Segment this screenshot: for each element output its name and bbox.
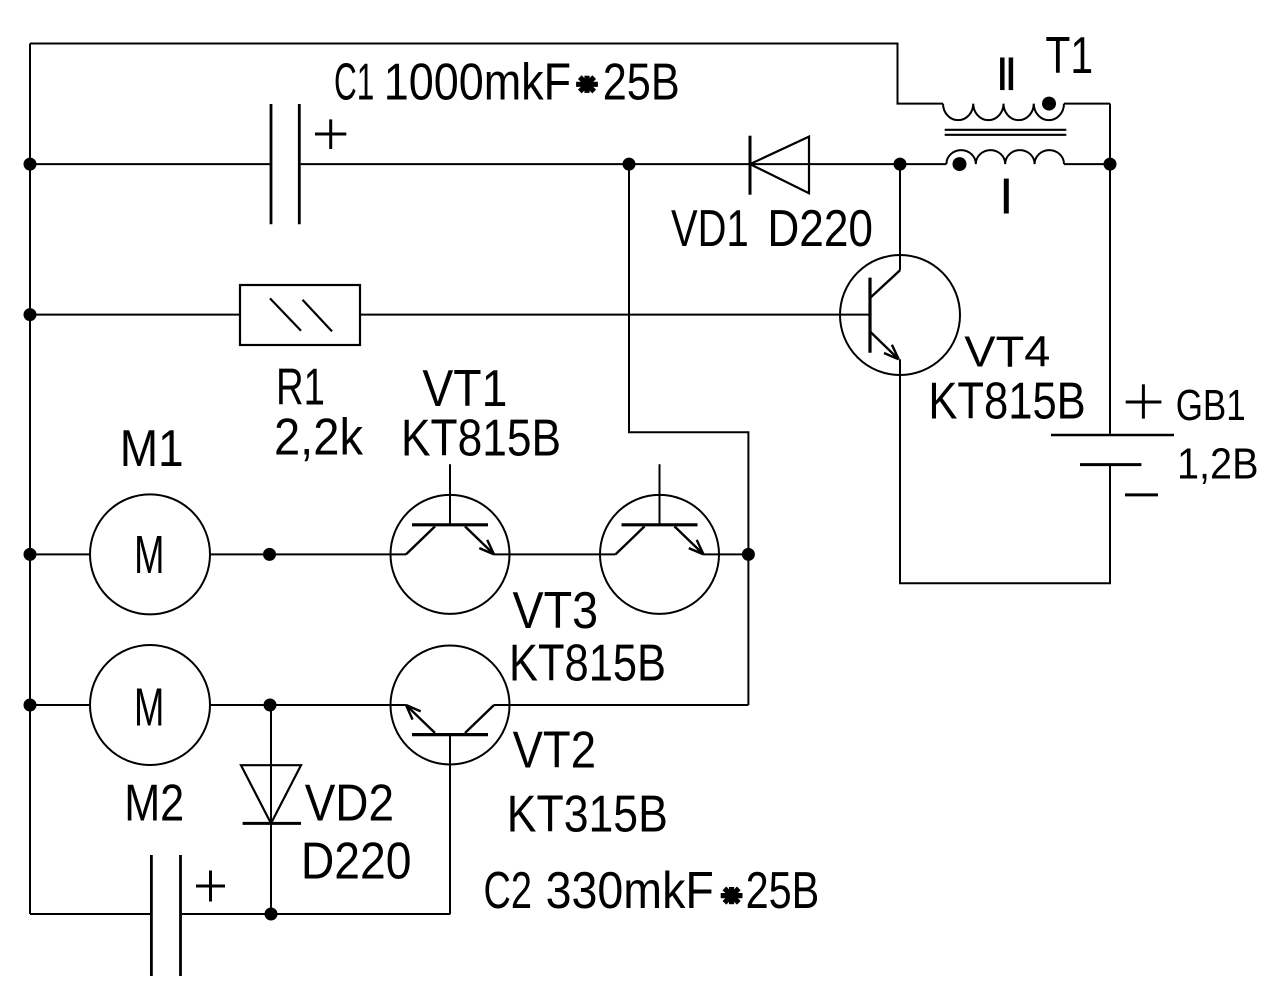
svg-text:25B: 25B (603, 54, 680, 112)
transistor VT4 (840, 255, 960, 375)
wire VT4 collector (899, 164, 901, 270)
label winding I (1004, 179, 1009, 214)
svg-text:M1: M1 (120, 420, 184, 478)
svg-text:2,2k: 2,2k (274, 409, 364, 467)
svg-text:C1: C1 (334, 54, 374, 112)
battery GB1 minus mark (1125, 493, 1158, 496)
wire winding I right (1064, 163, 1110, 165)
svg-text:VT4: VT4 (964, 328, 1050, 377)
battery GB1 (1051, 434, 1174, 437)
svg-text:D220: D220 (301, 833, 412, 891)
transformer T1 polarity dot winding I (953, 157, 967, 171)
capacitor C1 (270, 104, 273, 224)
svg-text:KT815B: KT815B (401, 410, 561, 468)
node left M1 row (24, 548, 37, 561)
svg-text:330mkF: 330mkF (546, 862, 714, 920)
transformer T1 core (945, 129, 1067, 131)
node M2 right (264, 699, 277, 712)
svg-text:D220: D220 (767, 200, 873, 258)
svg-text:KT815B: KT815B (509, 635, 666, 693)
svg-text:VT2: VT2 (513, 721, 596, 779)
svg-text:T1: T1 (1045, 27, 1093, 85)
svg-text:M: M (134, 678, 164, 738)
label C2 value star (721, 893, 743, 898)
svg-text:25B: 25B (746, 862, 820, 920)
node D winding I right (1104, 158, 1117, 171)
wire right bus to battery (1109, 104, 1111, 434)
wire left bus (29, 44, 31, 915)
wire bottom bus (30, 913, 450, 915)
wire winding I left (900, 163, 946, 165)
diode VD1 (749, 136, 752, 195)
svg-text:VD1: VD1 (671, 200, 749, 258)
svg-text:1000mkF: 1000mkF (384, 54, 571, 112)
wire VD2 branch (270, 705, 272, 914)
label C1 value star (576, 82, 598, 87)
resistor R1 (240, 285, 360, 345)
svg-text:1,2B: 1,2B (1177, 440, 1259, 489)
svg-text:GB1: GB1 (1176, 381, 1246, 430)
wire node C down (747, 554, 749, 705)
wire VT2 collector to node C (494, 704, 748, 706)
polarity plus C1 (315, 133, 346, 136)
wire row M2 (30, 704, 406, 706)
wire row M1 (30, 553, 748, 555)
svg-text:C2: C2 (484, 862, 533, 920)
transformer T1 polarity dot winding II (1042, 97, 1056, 111)
svg-text:M2: M2 (124, 774, 184, 832)
resistor R1 power marks (270, 298, 301, 330)
node M1 right (263, 548, 276, 561)
transistor VT2 (391, 646, 510, 915)
transistor VT1 (391, 464, 510, 614)
label winding II (1000, 58, 1005, 91)
capacitor C2 (150, 855, 153, 976)
wire row R1 (30, 314, 870, 316)
node left M2 row (24, 699, 37, 712)
node left C1 row (24, 158, 37, 171)
node A C1/VD1 junction (623, 158, 636, 171)
wire top bus (30, 44, 943, 104)
diode VD2 (241, 765, 301, 823)
node C VT3 emitter junction (742, 548, 755, 561)
wire middle drop from node A (629, 164, 748, 554)
motor M1 (90, 494, 210, 614)
node left R1 row (24, 308, 37, 321)
svg-text:VT3: VT3 (513, 582, 599, 640)
transformer T1 winding I (946, 150, 1064, 164)
motor M2 (90, 645, 210, 765)
node B VD1/VT4 junction (894, 158, 907, 171)
wire VT4 emitter loop (900, 359, 1110, 583)
battery GB1 plus mark (1126, 401, 1162, 404)
transistor VT3 (600, 464, 719, 614)
polarity plus C2 (196, 885, 225, 888)
svg-text:M: M (134, 525, 164, 585)
svg-text:KT315B: KT315B (507, 785, 668, 843)
wire row C1 (30, 163, 900, 165)
svg-text:VD2: VD2 (305, 774, 394, 832)
transformer T1 winding II (943, 104, 1064, 121)
svg-text:KT815B: KT815B (928, 373, 1085, 431)
wire winding II right (1064, 103, 1110, 105)
node bottom VD2/C2 junction (265, 908, 278, 921)
